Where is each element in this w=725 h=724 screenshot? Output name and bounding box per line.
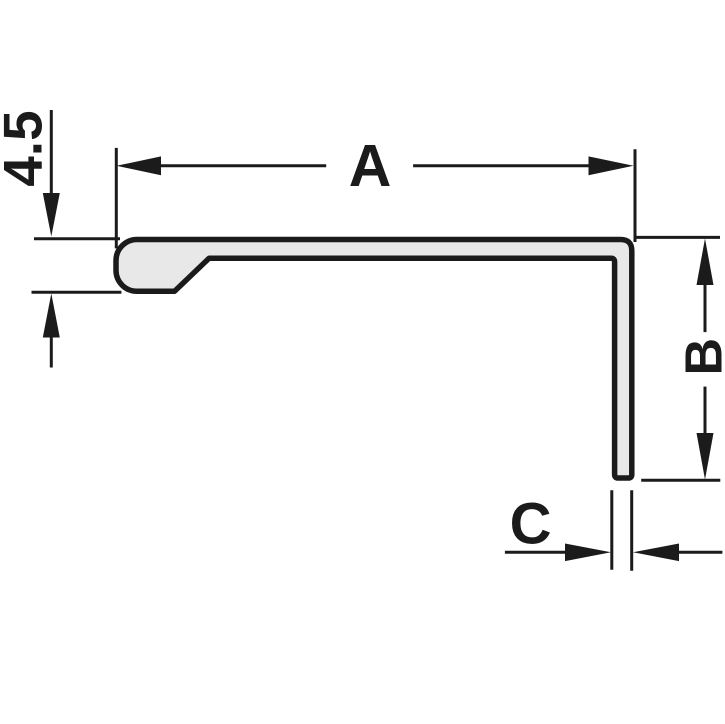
dim B top ext line: [635, 236, 720, 239]
dim A left ext line: [115, 148, 118, 249]
svg-text:B: B: [676, 338, 725, 376]
profile cross-section: [116, 240, 632, 479]
svg-text:4.5: 4.5: [0, 110, 53, 186]
dim 4.5 down arrow: [43, 193, 60, 237]
dim C left ext line: [610, 490, 613, 569]
dim 4.5 ext line bottom: [32, 291, 122, 294]
dim A line right segment: [413, 164, 590, 167]
dim B line lower segment: [704, 387, 707, 436]
dim B bottom ext line: [641, 479, 720, 482]
dim C line right segment: [676, 551, 722, 554]
svg-text:C: C: [510, 491, 552, 556]
dim B line upper segment: [704, 282, 707, 332]
dim C left arrow: [565, 544, 611, 562]
dim A right arrow: [589, 156, 634, 175]
svg-text:A: A: [349, 133, 392, 199]
dim C line left segment: [505, 551, 568, 554]
dim A right ext line: [634, 149, 637, 242]
dim C right ext line: [630, 490, 633, 570]
dim C right arrow: [633, 544, 679, 562]
dim 4.5 ext line top: [34, 237, 120, 240]
dim 4.5 line: [50, 110, 53, 196]
dim 4.5 up arrow stem: [50, 335, 53, 368]
dim A line left segment: [158, 164, 326, 167]
dim 4.5 up arrow: [43, 294, 60, 338]
dim B up arrow: [697, 239, 714, 286]
dim A left arrow: [117, 156, 162, 175]
dim B down arrow: [697, 433, 714, 480]
